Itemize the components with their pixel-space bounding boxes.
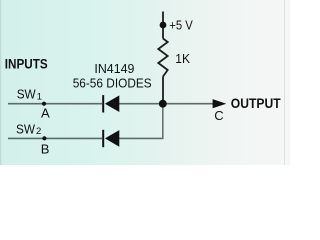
page left edge line [0, 0, 1, 165]
svg-text:C: C [214, 108, 223, 123]
svg-text:56-56 DIODES: 56-56 DIODES [73, 77, 152, 91]
diode D1 cathode bar [102, 95, 104, 112]
page right edge line [284, 0, 285, 165]
diode D2 cathode bar [102, 130, 104, 147]
svg-text:IN4149: IN4149 [94, 62, 134, 76]
wire SW2 input to diode D2 cathode [8, 137, 102, 139]
resistor R1 1K zigzag [158, 39, 167, 77]
node C output junction dot [159, 100, 167, 108]
output arrowhead [213, 99, 227, 108]
node A junction dot [42, 102, 46, 106]
wire +5V supply lead [162, 12, 164, 39]
wire SW1 input to diode D1 cathode [8, 103, 102, 105]
wire vertical from SW2 branch up to junction [162, 105, 164, 140]
svg-text:B: B [41, 141, 50, 156]
wire resistor bottom to junction [162, 77, 164, 102]
diode D1 triangle [105, 95, 119, 112]
wire diode D1 anode to output junction [119, 103, 161, 105]
svg-text:OUTPUT: OUTPUT [231, 96, 281, 111]
node dot on +5V lead [160, 22, 167, 29]
svg-text:SW: SW [16, 121, 36, 136]
svg-text:A: A [41, 106, 50, 121]
svg-text:1K: 1K [175, 52, 190, 66]
svg-text:SW: SW [17, 87, 37, 102]
wire diode D2 anode toward corner [119, 137, 162, 139]
node B junction dot [42, 136, 46, 140]
svg-text:2: 2 [36, 126, 41, 137]
svg-text:INPUTS: INPUTS [5, 56, 48, 71]
svg-text:1: 1 [37, 91, 42, 102]
wire output junction to arrow [164, 103, 214, 105]
svg-text:+5 V: +5 V [169, 19, 193, 33]
diode D2 triangle [105, 130, 119, 147]
